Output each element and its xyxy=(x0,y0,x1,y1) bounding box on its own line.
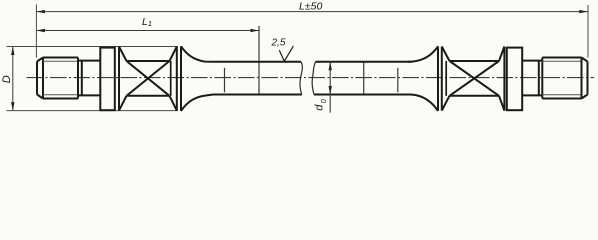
extension line D bottom xyxy=(7,110,179,112)
X-section left: diagonal 1 xyxy=(127,61,170,96)
dimension d0 line xyxy=(329,62,331,113)
X-section left: right edge xyxy=(176,47,178,111)
rod right piece bottom xyxy=(314,94,412,96)
thread right: root top xyxy=(542,60,581,62)
centerline xyxy=(27,77,595,79)
X-section left: waist bottom xyxy=(127,95,170,97)
roughness mark 2,5 xyxy=(279,46,293,61)
taper right: big end line xyxy=(437,46,439,111)
extension line left end xyxy=(35,4,37,57)
thread left: runout line xyxy=(77,58,79,99)
X-section right: corner bevel top-right xyxy=(499,47,504,62)
svg-text:D: D xyxy=(1,75,13,83)
thread left: root bottom xyxy=(43,94,78,96)
svg-text:d: d xyxy=(313,104,325,111)
X-section right: corner bevel top-left xyxy=(442,47,450,62)
thread left: root top xyxy=(43,60,78,62)
X-section left: corner bevel bottom-right xyxy=(170,96,177,111)
dimension line L±50 xyxy=(36,11,587,13)
tick right rod xyxy=(397,68,399,93)
thread left: chamfer line xyxy=(42,58,44,99)
X-section left: corner bevel top-right xyxy=(170,47,177,62)
thread right: runout line xyxy=(541,58,543,99)
tick left rod xyxy=(224,68,226,93)
extension line right end xyxy=(587,5,589,58)
thread left: OD bottom xyxy=(43,98,78,100)
X-section left: corner bevel top-left xyxy=(119,47,127,62)
thread right: runout line 2 xyxy=(538,61,540,96)
break line right xyxy=(312,62,315,95)
extension line D top xyxy=(7,46,179,48)
thread left: chamfer bottom xyxy=(37,95,43,99)
taper right: top curve xyxy=(408,46,438,61)
X-section right: corner bevel bottom-right xyxy=(499,96,504,111)
thread right: root bottom xyxy=(542,94,581,96)
thread left: runout line 2 xyxy=(81,61,83,96)
X-section right: diagonal 1 xyxy=(450,61,500,96)
thread right: chamfer top xyxy=(582,58,588,62)
rod left piece bottom xyxy=(213,94,302,96)
thread left: chamfer top xyxy=(37,58,43,62)
thread left: end face xyxy=(36,62,38,95)
thread left: OD top xyxy=(43,57,78,59)
collar right xyxy=(507,48,522,111)
X-section right: diagonal 2 xyxy=(450,61,500,96)
neck left bottom xyxy=(78,94,100,96)
taper left: big end line xyxy=(180,46,182,111)
svg-text:L±50: L±50 xyxy=(299,1,322,13)
X-section right: left edge xyxy=(441,47,443,111)
X-section right: inner silhouette line xyxy=(445,61,447,96)
thread right: chamfer bottom xyxy=(582,95,588,99)
X-section left: corner bevel bottom-left xyxy=(119,96,127,111)
thread right: end face xyxy=(587,62,589,95)
taper right: bottom curve xyxy=(408,95,438,111)
X-section left: waist top xyxy=(127,60,170,62)
X-section right: corner bevel bottom-left xyxy=(442,96,450,111)
collar left xyxy=(100,48,115,111)
thread right: OD bottom xyxy=(542,98,581,100)
rod left piece top xyxy=(213,61,301,63)
X-section right: waist bottom xyxy=(450,95,500,97)
break line left xyxy=(300,62,302,95)
svg-text:1: 1 xyxy=(148,19,152,28)
dimension line D xyxy=(12,47,14,111)
dimension line L1 xyxy=(36,30,259,32)
X-section left: diagonal 2 xyxy=(127,61,170,96)
X-section right: right edge xyxy=(503,47,505,111)
thread right: chamfer line xyxy=(581,58,583,99)
taper left: top curve xyxy=(181,46,213,61)
X-section left: inner silhouette line xyxy=(170,61,172,96)
neck left top xyxy=(78,60,100,62)
extension/transverse line L1 right xyxy=(258,26,260,95)
neck right top xyxy=(522,60,542,62)
rod right piece top xyxy=(316,61,413,63)
X-section right: waist top xyxy=(450,60,500,62)
taper left: bottom curve xyxy=(181,95,213,111)
X-section left: left edge xyxy=(118,47,120,111)
neck right bottom xyxy=(522,94,542,96)
thread right: OD top xyxy=(542,57,581,59)
svg-text:2,5: 2,5 xyxy=(271,37,286,48)
transverse line right rod xyxy=(363,62,365,95)
